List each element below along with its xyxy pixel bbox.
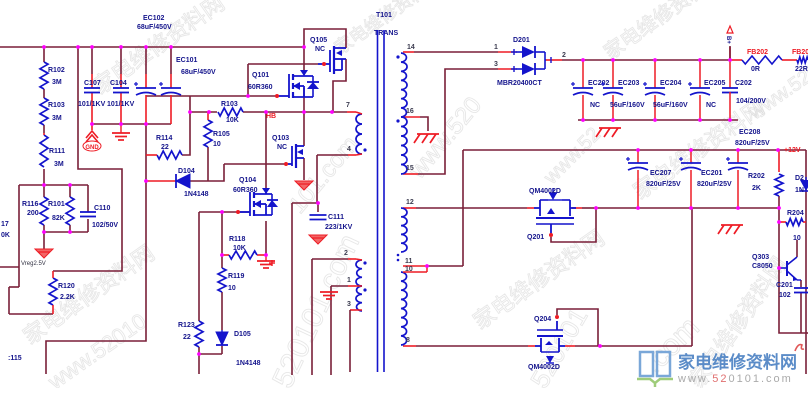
- svg-text:Q103: Q103: [272, 135, 289, 142]
- capacitor EC202: [571, 60, 610, 120]
- svg-text:C202: C202: [735, 80, 752, 87]
- capacitor C111: [310, 214, 353, 231]
- svg-text:+12V: +12V: [784, 147, 801, 154]
- wire Q105 gate net y64: [248, 63, 318, 65]
- svg-text:C111: C111: [328, 214, 344, 221]
- resistor R123: [178, 321, 203, 347]
- svg-text:R114: R114: [156, 135, 172, 142]
- svg-text:8: 8: [406, 337, 410, 344]
- wire C201 leads: [800, 280, 802, 333]
- svg-text:B+: B+: [725, 36, 731, 44]
- wire D104 node y181: [190, 164, 224, 181]
- wire vref box right: [87, 185, 89, 232]
- svg-text:56uF/160V: 56uF/160V: [610, 102, 645, 109]
- wire x304 Q101 drain: [303, 47, 305, 75]
- svg-text:1N: 1N: [795, 187, 804, 194]
- svg-text:EC201: EC201: [701, 170, 723, 177]
- wire Q104 source drop: [265, 221, 267, 255]
- svg-text:3: 3: [347, 301, 351, 308]
- resistor R111: [40, 133, 65, 168]
- svg-text:EC102: EC102: [143, 15, 165, 22]
- transformer secondary winding 16-15: [396, 117, 407, 174]
- svg-text:家电维修资料网: 家电维修资料网: [678, 352, 797, 372]
- svg-text:QM4002D: QM4002D: [529, 188, 561, 195]
- pin number 8: [406, 337, 410, 344]
- svg-text:Q204: Q204: [534, 316, 551, 323]
- svg-text:EC204: EC204: [660, 80, 682, 87]
- svg-text:56uF/160V: 56uF/160V: [653, 102, 688, 109]
- svg-text:3M: 3M: [52, 79, 62, 86]
- wire rail2 top y150: [463, 149, 806, 151]
- wire x146 long vertical: [46, 95, 146, 374]
- svg-text:R202: R202: [748, 173, 765, 180]
- svg-text:Vreg2.5V: Vreg2.5V: [21, 261, 46, 267]
- wire R105 lower lead: [207, 147, 209, 181]
- resistor R119: [218, 268, 244, 292]
- ground pground C111: [309, 235, 327, 244]
- pin 11-10 red link: [403, 266, 427, 272]
- svg-text:1N4148: 1N4148: [184, 191, 209, 198]
- wire pin15 to D201 pin3: [403, 69, 516, 174]
- resistor R116: [22, 197, 48, 225]
- wire R118 row: [222, 254, 266, 256]
- resistor R118: [229, 236, 257, 259]
- transistor Q201 QM4002D: [527, 188, 576, 241]
- resistor R114: [146, 135, 182, 159]
- svg-text:C110: C110: [94, 205, 110, 212]
- svg-text:2: 2: [344, 250, 348, 257]
- ground pground Q103: [295, 181, 313, 190]
- svg-text:101/1KV: 101/1KV: [78, 101, 106, 108]
- wire x266 Q104 drain: [265, 112, 267, 189]
- wire R101 leads: [69, 185, 71, 232]
- wire x190 R114 branch: [182, 96, 190, 155]
- svg-text:3M: 3M: [54, 161, 64, 168]
- svg-text:0R: 0R: [751, 66, 760, 73]
- svg-text:Q303: Q303: [752, 254, 769, 261]
- svg-text:11: 11: [405, 258, 413, 265]
- svg-text:NC: NC: [590, 102, 600, 109]
- svg-text:C8050: C8050: [752, 263, 773, 270]
- ground hatched bank1: [596, 128, 621, 137]
- svg-text:3M: 3M: [52, 115, 62, 122]
- wire Q104 gate y212: [199, 211, 250, 213]
- wire Q103 source: [303, 158, 305, 180]
- svg-text:D2: D2: [795, 175, 804, 182]
- wire x806 right edge: [805, 150, 807, 374]
- resistor R105: [204, 112, 230, 148]
- capacitor EC205: [688, 60, 726, 120]
- svg-text:820uF/25V: 820uF/25V: [735, 140, 770, 147]
- capacitor EC207: [626, 150, 681, 207]
- svg-text:17: 17: [1, 221, 9, 228]
- transistor Q105: [310, 37, 346, 74]
- resistor R103 left: [40, 98, 65, 125]
- pin number 14: [407, 44, 415, 51]
- svg-text:68uF/450V: 68uF/450V: [137, 24, 172, 31]
- pin number 3: [347, 301, 351, 308]
- svg-text:EC101: EC101: [176, 57, 198, 64]
- wire Q303 collector: [796, 240, 798, 257]
- svg-text:NC: NC: [315, 46, 325, 53]
- wire x19 box left: [18, 185, 20, 287]
- capacitor C110: [80, 205, 118, 229]
- wire pin1 net: [331, 286, 356, 375]
- pin number 7: [346, 102, 350, 109]
- capacitor C107: [78, 80, 106, 108]
- svg-text:C201: C201: [776, 282, 793, 289]
- svg-text:820uF/25V: 820uF/25V: [646, 181, 681, 188]
- svg-text:R111: R111: [49, 148, 65, 155]
- wire top rail AC bus: [0, 46, 304, 48]
- wire HB rail y112: [190, 111, 347, 113]
- resistor R120: [49, 271, 75, 314]
- power flag B+: [725, 26, 733, 60]
- wire x304 Q103 drain: [303, 112, 305, 146]
- svg-text:200: 200: [27, 210, 39, 217]
- wire pin8 to Q204: [403, 345, 535, 347]
- pin number 16: [406, 108, 414, 115]
- svg-text:16: 16: [406, 108, 414, 115]
- svg-text:www.520101.com: www.520101.com: [677, 373, 793, 385]
- transformer primary winding 7-4: [356, 112, 367, 155]
- svg-text:R119: R119: [228, 273, 244, 280]
- transformer secondary winding 14-16: [396, 53, 407, 117]
- svg-text:22: 22: [183, 334, 191, 341]
- capacitor C202: [722, 60, 766, 120]
- svg-text:T101: T101: [376, 12, 392, 19]
- svg-text:Q201: Q201: [527, 234, 544, 241]
- svg-text:7: 7: [346, 102, 350, 109]
- svg-text:NC: NC: [277, 144, 287, 151]
- red mark edge: [795, 345, 804, 351]
- diode D105 1N4148: [216, 330, 261, 367]
- resistor R101: [48, 197, 74, 225]
- ground pground vref: [21, 240, 53, 267]
- svg-text:R123: R123: [178, 322, 195, 329]
- diode D202 edge: [795, 175, 808, 194]
- ground GND symbol: [83, 124, 101, 151]
- svg-text:22R: 22R: [795, 66, 808, 73]
- svg-text:1N4148: 1N4148: [236, 360, 261, 367]
- ground hatched bank2: [718, 225, 743, 234]
- svg-text:R118: R118: [229, 236, 245, 243]
- wire x78 to R120 route: [53, 47, 122, 271]
- wire pin14 to D201 pin1: [403, 51, 516, 53]
- ferrite bead FB203: [792, 49, 808, 73]
- svg-text:10K: 10K: [226, 117, 239, 124]
- svg-text:NC: NC: [706, 102, 716, 109]
- wire Q201 out: [572, 207, 596, 209]
- capacitor EC102: [134, 15, 172, 95]
- wire R116 leads: [43, 185, 45, 240]
- svg-text:C107: C107: [84, 80, 101, 87]
- svg-text::115: :115: [8, 355, 22, 362]
- transformer secondary winding 10-8: [401, 272, 407, 345]
- ground earth pin1: [320, 292, 338, 299]
- svg-text:15: 15: [406, 165, 414, 172]
- svg-text:104/200V: 104/200V: [736, 98, 766, 105]
- wire x248 gate drop: [247, 64, 249, 96]
- ground hatched pin16: [414, 134, 439, 143]
- svg-text:10: 10: [213, 141, 221, 148]
- wire C104 leads: [120, 47, 122, 124]
- pin number 4: [347, 146, 351, 153]
- svg-text:1: 1: [494, 44, 498, 51]
- wire C111 node y203: [292, 203, 318, 212]
- wire rail2 bottom y208: [596, 207, 780, 209]
- transistor Q103: [272, 135, 304, 168]
- svg-text:60R360: 60R360: [248, 84, 273, 91]
- svg-text:R101: R101: [48, 201, 65, 208]
- wire x779 down: [779, 208, 806, 333]
- svg-text:10K: 10K: [233, 245, 246, 252]
- transformer secondary winding 12-11: [397, 208, 407, 261]
- transformer T101 label: [374, 12, 398, 37]
- wire vref box top: [19, 184, 88, 186]
- wire Q105 drain over-route: [304, 29, 346, 48]
- pin number 12: [406, 199, 414, 206]
- wire Q105 source to HB rail: [333, 59, 346, 112]
- svg-text:10: 10: [793, 235, 801, 242]
- svg-text:MBR20400CT: MBR20400CT: [497, 80, 542, 87]
- wire pin16 to ground: [403, 117, 428, 131]
- svg-text:EC202: EC202: [588, 80, 610, 87]
- capacitor EC101: [159, 57, 216, 95]
- text R117 edge: [1, 221, 10, 239]
- svg-text:2K: 2K: [752, 185, 761, 192]
- svg-text:68uF/450V: 68uF/450V: [181, 69, 216, 76]
- svg-text:D105: D105: [234, 331, 251, 338]
- svg-text:R102: R102: [48, 67, 65, 74]
- wire R204 leads: [779, 221, 806, 223]
- svg-text:EC203: EC203: [618, 80, 640, 87]
- resistor R103 10K: [218, 101, 243, 124]
- capacitor C104: [107, 80, 135, 108]
- wire y333 edge stub: [806, 332, 808, 334]
- wire Q204 out: [565, 345, 692, 347]
- svg-text:EC205: EC205: [704, 80, 726, 87]
- svg-text:EC207: EC207: [650, 170, 672, 177]
- svg-text:12: 12: [406, 199, 414, 206]
- transformer core: [378, 30, 385, 372]
- wire R202 leads: [778, 150, 780, 208]
- svg-text:R204: R204: [787, 210, 804, 217]
- svg-text:14: 14: [407, 44, 415, 51]
- text R115 edge: [8, 355, 22, 362]
- pin number 2: [344, 250, 348, 257]
- wire vref box bottom: [44, 231, 88, 233]
- ferrite bead FB202: [742, 49, 782, 73]
- wire Q103 gate y164: [224, 163, 288, 165]
- transformer aux winding 2-1-3: [356, 259, 367, 311]
- wire Q201 gate loop: [551, 208, 596, 242]
- transistor Q104: [233, 177, 278, 216]
- wire gate net y96: [146, 95, 276, 97]
- wire B+ rise: [729, 47, 731, 60]
- ground earth R118: [257, 255, 275, 268]
- svg-text:R120: R120: [58, 283, 75, 290]
- svg-text:R116: R116: [22, 201, 38, 208]
- wire EC102 top lead: [145, 47, 147, 88]
- svg-text:10: 10: [405, 266, 413, 273]
- net stub mark: [269, 260, 275, 266]
- svg-text:102: 102: [779, 292, 791, 299]
- capacitor EC208: [726, 129, 770, 207]
- wire x463 drop: [462, 150, 464, 266]
- svg-text:R103: R103: [48, 102, 65, 109]
- wire EC101 top lead: [170, 47, 172, 88]
- wire x292 down: [291, 203, 293, 375]
- wire x44 resistor chain: [43, 47, 45, 185]
- svg-text:EC208: EC208: [739, 129, 761, 136]
- capacitor EC204: [643, 60, 688, 120]
- wire D105 cathode link y354: [199, 353, 222, 355]
- wire x222 R119 chain: [221, 212, 223, 354]
- wire x692 up: [691, 208, 693, 346]
- diode D104 1N4148: [146, 168, 209, 198]
- wire pin11 link: [427, 265, 463, 267]
- svg-text:HB: HB: [266, 113, 276, 120]
- logo website: [637, 352, 797, 387]
- wire FB segment red: [730, 59, 797, 61]
- svg-text:101/1KV: 101/1KV: [107, 101, 135, 108]
- wire pin12 to Q201: [403, 207, 534, 209]
- transistor Q204 QM4002D: [528, 316, 565, 371]
- svg-text:1: 1: [347, 277, 351, 284]
- red pin dots: [236, 62, 559, 319]
- wire cap ground rail y124: [92, 123, 171, 125]
- pin number 15: [406, 165, 414, 172]
- svg-text:D104: D104: [178, 168, 195, 175]
- svg-text:2: 2: [562, 52, 566, 59]
- wire x199 R123 chain: [198, 212, 200, 374]
- wire R120 bottom route: [9, 287, 53, 314]
- svg-text:C104: C104: [110, 80, 127, 87]
- pin number 1: [347, 277, 351, 284]
- svg-text:22: 22: [161, 144, 169, 151]
- svg-text:D201: D201: [513, 37, 530, 44]
- svg-text:Q101: Q101: [252, 72, 269, 79]
- pin number 10: [405, 266, 413, 273]
- svg-text:R103: R103: [221, 101, 238, 108]
- diode D201 MBR20400CT: [494, 37, 566, 87]
- transistor Q101: [248, 70, 319, 98]
- svg-text:4: 4: [347, 146, 351, 153]
- capacitor C201: [776, 282, 808, 299]
- svg-text:2.2K: 2.2K: [60, 294, 75, 301]
- svg-text:QM4002D: QM4002D: [528, 364, 560, 371]
- wire pin4 net: [317, 155, 356, 203]
- svg-text:R105: R105: [213, 131, 230, 138]
- wire D201 output rail y60: [546, 59, 730, 61]
- capacitor EC203: [601, 60, 645, 120]
- svg-text:60R360: 60R360: [233, 187, 258, 194]
- svg-text:FB202: FB202: [747, 49, 768, 56]
- svg-text:Q104: Q104: [239, 177, 256, 184]
- wire pin2 net: [312, 259, 356, 375]
- svg-text:3: 3: [494, 61, 498, 68]
- svg-text:Q105: Q105: [310, 37, 327, 44]
- net label +12V: [784, 147, 801, 154]
- svg-text:102/50V: 102/50V: [92, 222, 118, 229]
- transistor Q303 C8050: [752, 254, 801, 281]
- wire EC101 lower lead: [170, 95, 172, 124]
- wire pin7 stub: [347, 111, 356, 113]
- svg-text:223/1KV: 223/1KV: [325, 224, 353, 231]
- wire left edge stub y267: [0, 266, 19, 268]
- svg-text:FB20: FB20: [792, 49, 808, 56]
- net label HB: [266, 113, 276, 120]
- wire pin3 net: [350, 310, 356, 372]
- resistor R102: [40, 62, 65, 89]
- svg-text:82K: 82K: [52, 215, 65, 222]
- wire C107 leads: [91, 47, 93, 124]
- svg-text:GND: GND: [85, 145, 99, 151]
- wire bank1 bottom rail: [578, 119, 738, 121]
- wire Q204 gate loop: [557, 309, 598, 346]
- svg-text:10: 10: [228, 285, 236, 292]
- resistor R202: [748, 173, 783, 196]
- resistor R204: [786, 210, 804, 242]
- svg-text:820uF/25V: 820uF/25V: [697, 181, 732, 188]
- ground earth C104: [112, 124, 130, 140]
- pin number 11: [405, 258, 413, 265]
- capacitor EC201: [679, 150, 732, 207]
- wire x304 Q101 source to rail: [303, 88, 305, 112]
- svg-text:0K: 0K: [1, 232, 10, 239]
